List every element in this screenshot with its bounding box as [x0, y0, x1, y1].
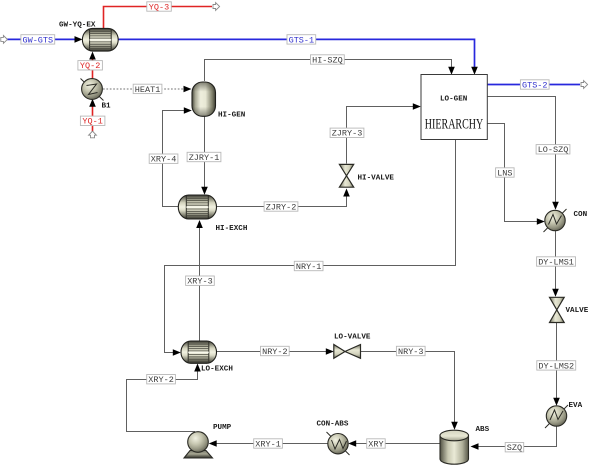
flash drum HI-GEN label [218, 112, 246, 120]
valve LO-VALVE label [334, 334, 371, 342]
svg-text:GTS-2: GTS-2 [522, 80, 548, 90]
stream GTS-1 label [287, 35, 316, 46]
stream ZJRY-2 label [264, 202, 298, 213]
svg-text:XRY-3: XRY-3 [187, 277, 213, 287]
vessel ABS label [476, 426, 490, 434]
stream GW-GTS feed arrow [1, 36, 8, 44]
stream LNS wire [488, 124, 545, 225]
stream NRY-3 label [396, 346, 425, 357]
svg-text:HI-EXCH: HI-EXCH [216, 225, 248, 233]
stream LO-SZQ wire [488, 97, 559, 210]
stream XRY-4 wire [163, 107, 192, 206]
stream SZQ label [505, 443, 524, 454]
svg-text:XRY-1: XRY-1 [255, 439, 281, 449]
vessel ABS [440, 430, 469, 464]
stream HI-SZQ label [311, 55, 345, 66]
stream YQ-3 label [147, 2, 172, 13]
stream NRY-2 wire [217, 348, 334, 355]
stream NRY-1 wire [165, 140, 456, 356]
stream YQ-1 feed arrow [89, 131, 97, 138]
stream ZJRY-2 wire [217, 189, 350, 207]
svg-text:B1: B1 [102, 103, 112, 111]
stream XRY-3 wire [196, 220, 203, 341]
stream NRY-1 label [294, 261, 323, 272]
svg-text:GW-YQ-EX: GW-YQ-EX [59, 22, 96, 30]
svg-text:LO-GEN: LO-GEN [440, 96, 468, 104]
heat exchanger HI-EXCH [178, 195, 216, 219]
heater CON [544, 209, 567, 232]
svg-text:CON: CON [574, 211, 588, 219]
svg-text:GW-GTS: GW-GTS [23, 35, 54, 45]
stream HEAT1 label [133, 84, 162, 95]
stream SZQ wire [471, 427, 557, 450]
flash drum HI-GEN [192, 82, 216, 116]
svg-text:NRY-3: NRY-3 [398, 347, 424, 357]
svg-text:LNS: LNS [497, 168, 512, 178]
svg-text:HIERARCHY: HIERARCHY [425, 116, 484, 132]
pump PUMP label [213, 424, 232, 432]
stream ZJRY-1 wire [201, 116, 208, 195]
stream NRY-2 label [261, 346, 290, 357]
svg-text:DY-LMS2: DY-LMS2 [538, 361, 574, 371]
stream GTS-1 wire [118, 39, 478, 74]
stream DY-LMS2 label [537, 361, 576, 372]
svg-text:HI-SZQ: HI-SZQ [312, 55, 343, 65]
stream XRY-1 wire [209, 440, 328, 447]
svg-text:LO-EXCH: LO-EXCH [201, 366, 233, 374]
stream HEAT1 wire (dashed) [103, 86, 192, 93]
heat exchanger LO-EXCH [181, 341, 217, 363]
valve VALVE [550, 297, 565, 322]
svg-text:YQ-2: YQ-2 [80, 61, 100, 71]
svg-text:CON-ABS: CON-ABS [317, 421, 349, 429]
stream XRY label [367, 439, 386, 450]
pump PUMP [184, 432, 213, 458]
stream XRY-2 wire [127, 364, 201, 432]
svg-text:XRY-4: XRY-4 [151, 155, 177, 165]
stream XRY-1 label [254, 439, 283, 450]
stream ZJRY-3 wire [347, 103, 421, 163]
svg-text:DY-LMS1: DY-LMS1 [538, 257, 574, 267]
stream XRY wire [348, 440, 440, 447]
stream NRY-3 wire [361, 352, 458, 430]
svg-text:NRY-2: NRY-2 [262, 347, 288, 357]
stream ZJRY-3 label [330, 128, 364, 139]
svg-text:HI-VALVE: HI-VALVE [358, 175, 395, 183]
svg-text:ZJRY-2: ZJRY-2 [266, 202, 297, 212]
svg-text:SZQ: SZQ [507, 443, 522, 453]
stream YQ-3 product arrow [213, 3, 220, 11]
valve HI-VALVE label [358, 175, 395, 183]
stream XRY-3 label [186, 276, 215, 287]
stream GTS-2 product arrow [581, 81, 588, 89]
svg-text:HEAT1: HEAT1 [135, 85, 161, 95]
svg-text:LO-VALVE: LO-VALVE [334, 334, 371, 342]
stream YQ-1 wire [89, 99, 96, 132]
heater CON-ABS [327, 432, 350, 455]
stream DY-LMS2 wire [553, 323, 560, 406]
heater EVA [545, 405, 568, 428]
stream YQ-1 label [80, 116, 105, 127]
svg-text:YQ-1: YQ-1 [82, 117, 102, 127]
heat exchanger HI-EXCH label [216, 225, 248, 233]
stream GTS-2 label [520, 80, 549, 91]
valve VALVE label [566, 307, 589, 315]
stream GTS-2 wire [488, 84, 581, 86]
valve LO-VALVE [334, 345, 361, 359]
svg-text:HI-GEN: HI-GEN [218, 112, 246, 120]
stream LNS label [496, 168, 514, 179]
hierarchy block LO-GEN [421, 75, 487, 140]
svg-text:ZJRY-3: ZJRY-3 [332, 129, 363, 139]
stream XRY-4 label [149, 154, 178, 165]
stream DY-LMS1 wire [552, 231, 559, 297]
valve HI-VALVE [339, 164, 353, 187]
heater B1 [81, 79, 104, 101]
stream ZJRY-1 label [187, 152, 221, 163]
stream YQ-3 wire [104, 7, 213, 30]
heat exchanger LO-EXCH label [201, 366, 233, 374]
stream GW-GTS wire [7, 36, 83, 43]
stream YQ-2 wire [89, 52, 96, 79]
stream LO-SZQ label [536, 145, 570, 156]
svg-text:EVA: EVA [569, 402, 583, 410]
svg-text:NRY-1: NRY-1 [296, 262, 322, 272]
heat exchanger GW-YQ-EX [82, 28, 118, 51]
stream XRY-2 label [147, 375, 176, 386]
svg-text:ABS: ABS [476, 426, 490, 434]
heater EVA label [569, 402, 583, 410]
stream GW-GTS label [21, 35, 55, 46]
svg-text:ZJRY-1: ZJRY-1 [189, 153, 220, 163]
svg-text:XRY-2: XRY-2 [148, 375, 174, 385]
stream HI-SZQ wire [205, 60, 455, 82]
svg-text:YQ-3: YQ-3 [149, 2, 169, 12]
svg-text:GTS-1: GTS-1 [289, 35, 315, 45]
heater CON-ABS label [317, 421, 349, 429]
heat exchanger GW-YQ-EX label [59, 22, 96, 30]
svg-text:PUMP: PUMP [213, 424, 232, 432]
heater CON label [574, 211, 588, 219]
heater B1 label [102, 103, 112, 111]
stream DY-LMS1 label [537, 257, 576, 268]
svg-text:XRY: XRY [368, 439, 383, 449]
svg-text:LO-SZQ: LO-SZQ [538, 145, 569, 155]
stream YQ-2 label [78, 61, 103, 72]
svg-text:VALVE: VALVE [566, 307, 589, 315]
